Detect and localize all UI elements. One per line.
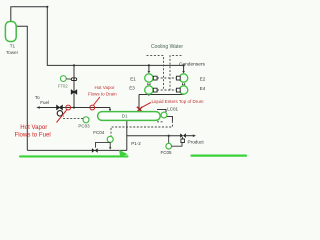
node junction dot FC05 bbox=[168, 135, 170, 137]
svg-text:T1: T1 bbox=[10, 44, 16, 49]
svg-text:PC03: PC03 bbox=[78, 124, 90, 129]
svg-text:FT02: FT02 bbox=[58, 84, 68, 89]
wire LC01 to FC04 signal dashed bbox=[111, 121, 172, 136]
svg-text:D1: D1 bbox=[122, 114, 128, 119]
svg-text:Fuel: Fuel bbox=[40, 100, 49, 105]
svg-text:Flows to Fuel: Flows to Fuel bbox=[14, 131, 50, 138]
svg-text:Hot Vapor: Hot Vapor bbox=[95, 85, 115, 90]
wire product line bbox=[127, 135, 181, 137]
tab E2 bbox=[176, 76, 180, 80]
wire condensate drop into drum bbox=[138, 95, 140, 112]
wire FC05 to product valve bbox=[172, 143, 183, 147]
svg-text:Tower: Tower bbox=[6, 50, 19, 55]
svg-text:Flows to Drain: Flows to Drain bbox=[88, 92, 117, 97]
leader red to drain ring bbox=[94, 97, 100, 105]
node corner dot top bbox=[46, 6, 48, 8]
wire FC04 to valve bbox=[96, 142, 111, 147]
condenser E2 bbox=[179, 74, 187, 82]
instrument FT02 bubble bbox=[60, 76, 66, 82]
actuator square below product valve bbox=[182, 137, 184, 139]
tab E1 bbox=[153, 76, 157, 80]
leader red to fuel ring bbox=[57, 110, 67, 123]
arrowheads into header from E3 E4 bbox=[148, 92, 150, 94]
tab E3 bbox=[153, 88, 157, 92]
green flow arrow at pump bbox=[119, 150, 128, 157]
drum D1 bbox=[98, 112, 161, 121]
svg-text:Cooling Water: Cooling Water bbox=[151, 44, 183, 50]
orifice plate FT02 bbox=[71, 78, 74, 81]
wire drum outlet riser bbox=[126, 120, 128, 150]
wire overhead line from tower top to condensers bbox=[11, 7, 184, 66]
wire LC01 bottom tap dashed bbox=[157, 121, 164, 123]
svg-text:Liquid Enters Top of Drum: Liquid Enters Top of Drum bbox=[152, 99, 204, 104]
valve product bbox=[180, 133, 186, 138]
node dot on header bbox=[148, 93, 150, 95]
wire condenser outlet header bbox=[139, 94, 184, 96]
valve between E1 E3 bbox=[147, 83, 150, 85]
wire FC04 tap arrow bbox=[109, 142, 111, 147]
svg-text:LC01: LC01 bbox=[167, 107, 178, 112]
svg-text:Condensers: Condensers bbox=[179, 61, 205, 67]
condenser E4 bbox=[179, 86, 187, 94]
actuator circle below fuel valve bbox=[57, 111, 62, 116]
instrument FC05 bubble bbox=[168, 136, 170, 144]
condenser E1 bbox=[145, 74, 153, 82]
valve PC03 fuel control valve bbox=[57, 105, 63, 110]
instrument PC03 bubble bbox=[83, 117, 89, 123]
svg-text:E3: E3 bbox=[129, 86, 135, 91]
svg-text:E2: E2 bbox=[200, 77, 206, 82]
arrow into condenser E1 bbox=[148, 65, 150, 71]
wire bottom pipe bbox=[27, 149, 127, 151]
green product path right bbox=[192, 155, 247, 157]
svg-text:Hot Vapor: Hot Vapor bbox=[20, 124, 47, 131]
node junction dot on hot vapor line bbox=[73, 106, 75, 108]
node red X liquid entry bbox=[137, 107, 142, 112]
green product path left bbox=[20, 155, 128, 157]
svg-text:E1: E1 bbox=[130, 77, 136, 82]
arrow to fuel bbox=[36, 106, 40, 109]
svg-text:E4: E4 bbox=[200, 86, 206, 91]
wire elbow into drum top bbox=[109, 108, 111, 111]
svg-text:P1-2: P1-2 bbox=[131, 141, 141, 146]
wire vertical branch to hot vapor line bbox=[73, 65, 75, 107]
condenser E3 bbox=[145, 86, 153, 94]
wire PC03 signal dashed bbox=[64, 116, 84, 119]
leader red to X bbox=[142, 103, 151, 108]
arrow into condenser E2 bbox=[183, 65, 185, 71]
node red ring drain path bbox=[90, 105, 95, 110]
instrument LC01 bubble and taps bbox=[157, 109, 166, 112]
tab E4 bbox=[176, 88, 180, 92]
cooling water dashed lines bbox=[147, 56, 182, 90]
arrow product out bbox=[186, 135, 194, 137]
instrument FC04 bubble bbox=[107, 136, 113, 142]
svg-text:FC04: FC04 bbox=[93, 130, 105, 135]
valve FC02 on vapor branch bbox=[71, 90, 77, 94]
valve FC04 on bottom pipe bbox=[92, 148, 98, 153]
wire tower side draw down to bottom pipe bbox=[16, 26, 27, 150]
svg-text:Product: Product bbox=[188, 140, 205, 145]
valve between E2 E4 bbox=[182, 83, 185, 85]
tower T1 bbox=[5, 22, 16, 42]
wire hot vapor line bbox=[38, 107, 110, 109]
svg-text:FC05: FC05 bbox=[160, 150, 172, 155]
node junction dot at FT02 branch bbox=[73, 64, 75, 66]
node red ring fuel path bbox=[66, 105, 71, 110]
